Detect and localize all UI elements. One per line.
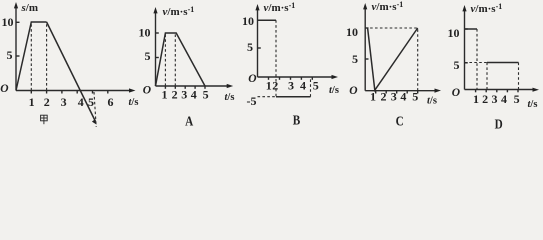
svg-text:1: 1 (370, 90, 376, 104)
svg-text:5: 5 (203, 87, 209, 101)
dashed vertical t=2 (486, 63, 488, 90)
svg-text:10: 10 (448, 26, 460, 40)
svg-text:5: 5 (514, 92, 520, 106)
x ticks (375, 91, 377, 94)
v=5 segment (487, 62, 519, 64)
y-axis (257, 8, 259, 77)
svg-text:2: 2 (272, 78, 278, 92)
dashed vertical t=5 (518, 63, 520, 90)
v=-5 segment (276, 96, 311, 98)
svg-text:5: 5 (412, 90, 418, 104)
svg-text:5: 5 (145, 49, 151, 63)
x ticks 1..5 (164, 86, 166, 89)
curve rise and plateau (16, 22, 47, 91)
x ticks (268, 77, 270, 80)
x ticks (475, 90, 477, 93)
svg-text:4: 4 (300, 78, 306, 92)
dashed vertical t=5 (310, 77, 312, 97)
svg-text:2: 2 (482, 92, 488, 106)
svg-text:4: 4 (400, 90, 406, 104)
svg-text:s/m: s/m (21, 2, 39, 14)
svg-text:D: D (495, 117, 503, 131)
svg-text:t/s: t/s (129, 97, 139, 108)
svg-text:2: 2 (44, 95, 50, 109)
v=10 segment (465, 28, 478, 30)
svg-text:1: 1 (29, 95, 35, 109)
svg-text:5: 5 (88, 95, 94, 109)
dashed vertical t=5 below axis (94, 92, 96, 127)
dashed horizontal v=5 (465, 62, 488, 64)
x-axis (465, 89, 536, 91)
dashed vertical t=1 (30, 22, 32, 91)
y-axis arrow (14, 2, 18, 8)
y-axis (464, 9, 466, 90)
svg-text:2: 2 (172, 87, 178, 101)
y ticks (465, 28, 468, 30)
svg-text:1: 1 (162, 87, 168, 101)
svg-text:10: 10 (139, 26, 151, 40)
svg-text:B: B (293, 113, 300, 128)
y ticks (258, 19, 261, 21)
descending line through axis (47, 22, 96, 122)
svg-text:3: 3 (391, 90, 397, 104)
dashed horizontal at -5 (258, 96, 277, 98)
V curve: steep drop then rise to (5,10) (368, 28, 418, 90)
svg-text:4: 4 (78, 95, 84, 109)
dashed vertical t=2 (46, 22, 48, 91)
svg-text:O: O (0, 83, 8, 95)
y-axis (155, 11, 157, 86)
svg-text:6: 6 (108, 95, 114, 109)
svg-text:t/s: t/s (427, 95, 437, 106)
svg-text:O: O (349, 85, 357, 97)
svg-text:C: C (396, 114, 404, 129)
dashed vertical t=2 (174, 33, 176, 86)
svg-text:3: 3 (181, 87, 187, 101)
svg-text:5: 5 (454, 58, 460, 72)
y-axis (364, 7, 366, 91)
x-axis (258, 76, 335, 78)
y tick 10 (16, 21, 20, 23)
dashed vertical t=5 (417, 28, 419, 91)
svg-text:O: O (143, 85, 151, 97)
x-axis arrow (129, 88, 136, 92)
x ticks 1..6 (30, 91, 32, 94)
svg-text:O: O (248, 73, 256, 85)
x-axis (16, 90, 131, 92)
svg-text:1: 1 (473, 92, 479, 106)
svg-text:1: 1 (266, 78, 272, 92)
svg-text:2: 2 (381, 90, 387, 104)
svg-text:10: 10 (2, 15, 14, 29)
svg-text:5: 5 (313, 78, 319, 92)
y ticks (365, 27, 368, 29)
svg-text:3: 3 (288, 78, 294, 92)
svg-text:5: 5 (7, 48, 13, 62)
dashed vertical t=1 (164, 33, 166, 86)
y ticks (156, 32, 159, 34)
svg-text:3: 3 (492, 92, 498, 106)
svg-text:A: A (185, 114, 193, 129)
svg-text:10: 10 (242, 14, 254, 28)
svg-text:10: 10 (346, 25, 358, 39)
svg-text:-5: -5 (247, 94, 257, 108)
dashed horizontal v=10 (365, 27, 418, 29)
svg-text:t/s: t/s (225, 92, 235, 103)
svg-text:3: 3 (61, 95, 67, 109)
svg-text:t/s: t/s (329, 85, 339, 96)
x-axis (365, 90, 437, 92)
y tick 5 (16, 55, 20, 57)
arrowhead on descending line end (92, 119, 97, 124)
svg-text:t/s: t/s (528, 99, 538, 110)
y-axis (15, 6, 17, 91)
dashed vertical t=1 drop (275, 20, 277, 97)
svg-text:4: 4 (191, 87, 197, 101)
svg-text:5: 5 (352, 52, 358, 66)
dashed vertical t=1 (476, 29, 478, 90)
title JIA (drawn CJK glyph) (41, 115, 48, 124)
x-axis (156, 85, 230, 87)
svg-text:4: 4 (501, 92, 507, 106)
svg-text:5: 5 (247, 40, 253, 54)
v=10 segment (258, 19, 277, 21)
svg-text:O: O (452, 87, 460, 99)
trapezoid curve (156, 33, 206, 86)
